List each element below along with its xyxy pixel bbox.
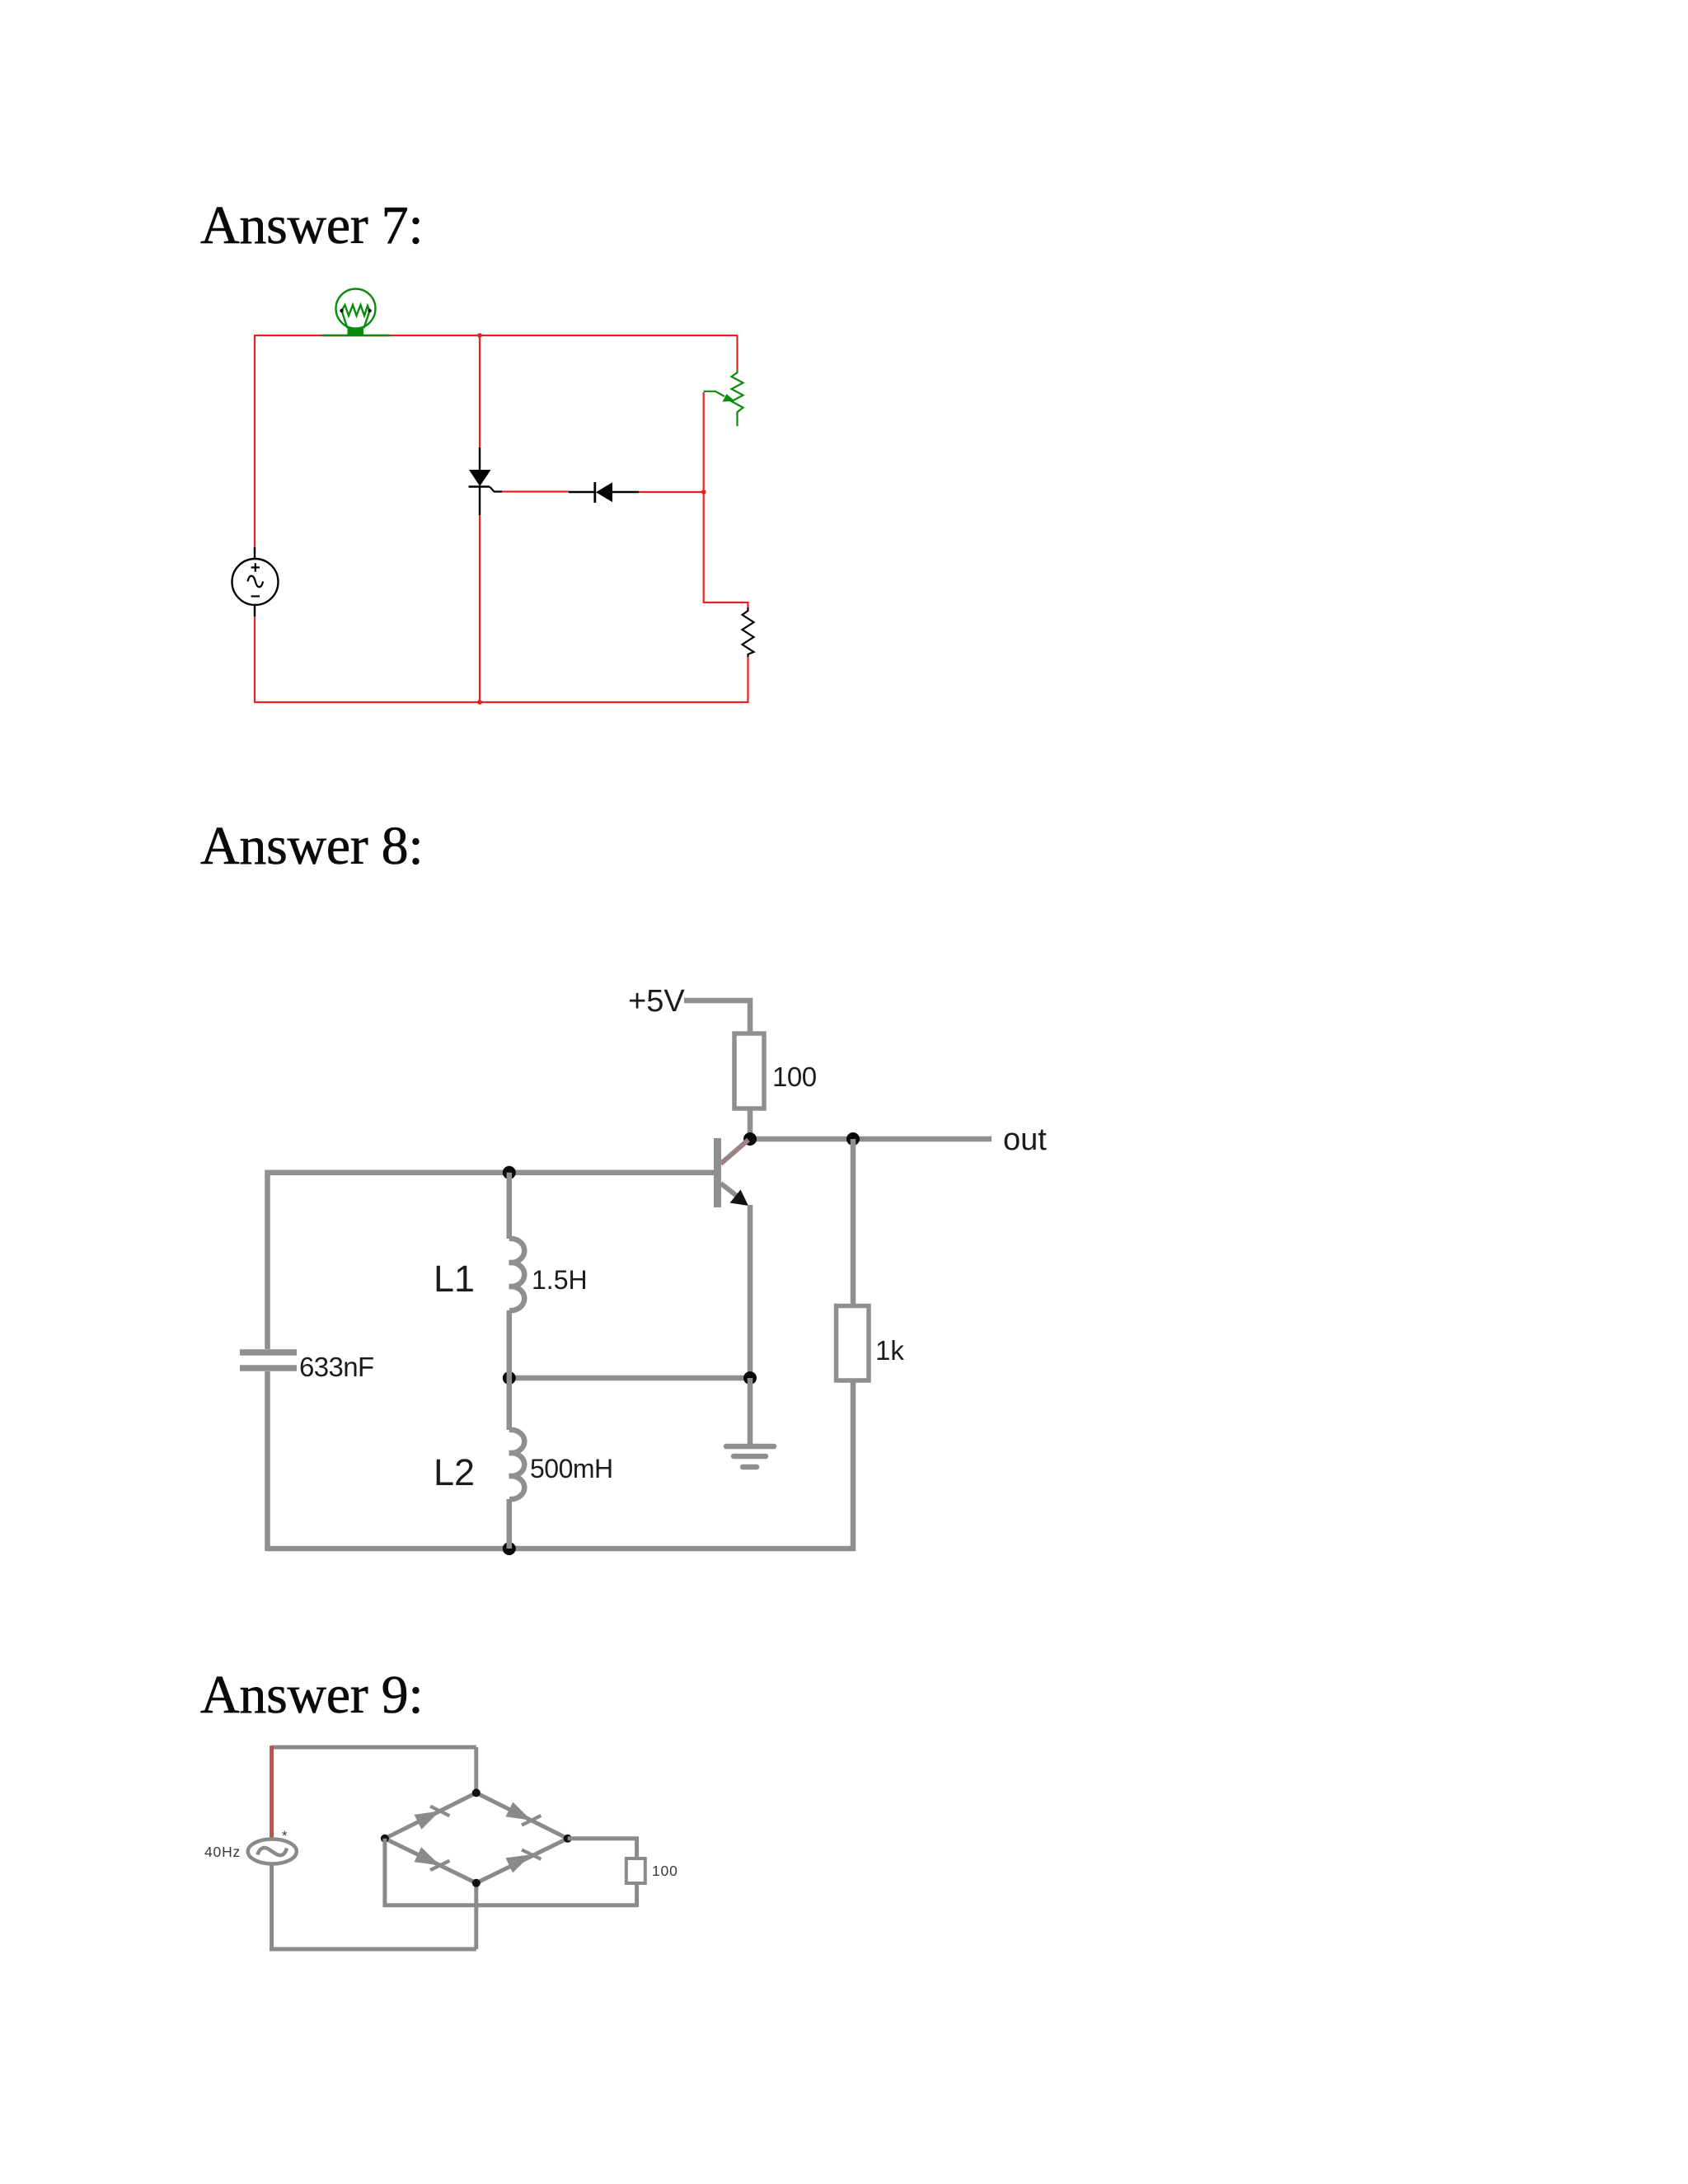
wire right node to resistor <box>568 1839 637 1858</box>
wire 1k upper <box>851 1139 856 1305</box>
rheostat wiper (green) <box>704 391 735 402</box>
bridge edge left-bottom <box>385 1839 476 1883</box>
rheostat top lead (red) <box>736 335 738 370</box>
SCR Q1 anode lead <box>479 448 481 470</box>
svg-text:+5V: +5V <box>628 984 685 1019</box>
capacitor C1 plate top <box>240 1349 297 1356</box>
bridge edge top-right <box>476 1793 568 1838</box>
wire junction down and right (red) <box>704 492 748 607</box>
wire resistor to bottom (red) <box>747 657 748 703</box>
junction out/1k <box>846 1132 860 1146</box>
wire L column middle <box>507 1310 513 1430</box>
wire top (gray) <box>272 1746 476 1750</box>
wire junction up (red) <box>703 392 705 492</box>
resistor R100b <box>626 1858 645 1883</box>
wire base <box>268 1170 715 1176</box>
wire +5V to resistor <box>684 1001 750 1033</box>
transistor Q1 emitter lead <box>721 1183 745 1202</box>
wire emitter vertical <box>748 1205 753 1378</box>
diode D1 <box>415 1807 450 1830</box>
svg-text:100: 100 <box>652 1863 678 1879</box>
wire middle vertical upper (red) <box>479 335 481 448</box>
lamp wire segment (green) <box>322 335 390 337</box>
wire source bottom (gray) <box>270 1863 274 1951</box>
junction right <box>701 490 706 494</box>
voltage source V1 <box>232 559 279 605</box>
wire L column upper <box>507 1173 513 1239</box>
svg-text:633nF: 633nF <box>299 1352 374 1382</box>
wire left vertical upper <box>265 1170 270 1350</box>
junction top middle <box>477 333 482 338</box>
wire bottom <box>268 1546 854 1552</box>
wire bridge top vertical <box>474 1747 478 1793</box>
junction bottom middle <box>477 700 482 705</box>
node top <box>472 1788 481 1797</box>
wire left vertical (red) bottom part <box>254 616 256 703</box>
wire bridge bottom vertical <box>474 1883 478 1949</box>
node left <box>381 1835 389 1843</box>
bridge edge left-top <box>385 1793 476 1838</box>
diode D1 lead right <box>612 491 639 493</box>
bridge edge bottom-right <box>476 1839 568 1883</box>
svg-text:L1: L1 <box>434 1258 475 1300</box>
capacitor C1 plate bottom <box>240 1365 297 1371</box>
wire 1k lower <box>851 1380 856 1551</box>
junction collector node <box>743 1132 757 1146</box>
diode D1 lead left <box>569 491 595 493</box>
node right <box>564 1835 572 1843</box>
diode D4 <box>505 1850 541 1873</box>
junction middle right <box>743 1371 757 1385</box>
wire resistor bottom <box>635 1883 639 1907</box>
svg-text:100: 100 <box>772 1062 817 1092</box>
diode D3 <box>415 1847 450 1870</box>
wire left vertical (red) top part <box>254 335 256 547</box>
node bottom <box>472 1879 481 1887</box>
transistor Q1 emitter arrow <box>730 1190 749 1207</box>
svg-text:40Hz: 40Hz <box>204 1844 241 1860</box>
inductor L1 <box>509 1239 524 1310</box>
svg-text:1k: 1k <box>875 1335 904 1366</box>
svg-text:*: * <box>282 1828 288 1844</box>
svg-text:Answer 9:: Answer 9: <box>200 1665 423 1725</box>
wire middle horizontal <box>509 1376 750 1381</box>
wire bottom (gray) <box>270 1947 476 1952</box>
resistor R1k <box>837 1306 870 1381</box>
gate wire (red) <box>502 490 569 492</box>
wire top (red) <box>254 335 738 336</box>
inductor L2 <box>509 1430 524 1499</box>
voltage source V1 lead top <box>254 547 256 560</box>
wire bottom (red) <box>254 701 748 703</box>
transistor Q1 base bar <box>714 1138 721 1207</box>
svg-text:Answer 7:: Answer 7: <box>200 195 423 255</box>
junction bottom <box>503 1542 516 1555</box>
diode D2 <box>505 1802 541 1825</box>
resistor R2 (black zigzag) <box>743 607 754 657</box>
svg-text:500mH: 500mH <box>530 1454 613 1483</box>
junction base/L1 <box>503 1166 516 1179</box>
SCR Q1 <box>469 470 503 515</box>
wire out <box>750 1137 992 1142</box>
svg-text:L2: L2 <box>434 1451 475 1493</box>
wire source top (red) <box>270 1746 274 1840</box>
svg-text:1.5H: 1.5H <box>532 1265 588 1295</box>
transistor Q1 collector lead <box>721 1140 749 1164</box>
wire diode to junction (red) <box>639 491 704 493</box>
junction middle left <box>503 1371 516 1385</box>
diode D1 <box>595 482 612 503</box>
wire resistor to collector node <box>748 1108 753 1139</box>
resistor R100 <box>734 1033 764 1108</box>
svg-text:out: out <box>1003 1122 1047 1157</box>
ground <box>726 1446 774 1467</box>
wire L column lower <box>507 1499 513 1549</box>
lamp filament dots <box>340 309 371 312</box>
wire left vertical lower <box>265 1371 270 1551</box>
source V40 ellipse <box>248 1840 297 1864</box>
lamp L1 <box>336 289 376 336</box>
voltage source V1 lead bottom <box>254 605 256 616</box>
wire to ground <box>748 1378 753 1446</box>
wire left node down and right <box>385 1839 637 1905</box>
svg-text:Answer 8:: Answer 8: <box>200 816 423 876</box>
wire middle vertical lower (red) <box>479 515 481 702</box>
rheostat R1 (green zigzag) <box>732 370 743 426</box>
